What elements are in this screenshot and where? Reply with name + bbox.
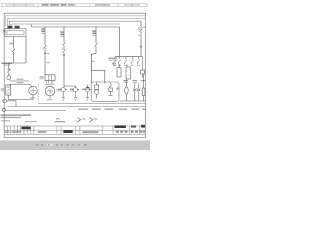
contact K3 — [44, 45, 47, 49]
pre-table small text left — [1, 120, 10, 121]
label left of RB1 — [40, 76, 44, 77]
pump motor M2 — [45, 86, 55, 96]
wire down into enclosure — [90, 54, 92, 85]
legend item GA2 — [90, 118, 98, 122]
transmitter loop outline — [5, 29, 26, 37]
sheet border frame — [4, 13, 145, 137]
wide columns — [56, 126, 58, 134]
bus L1 — [6, 16, 146, 26]
valve symbol left of loop — [3, 30, 6, 32]
contact K1 — [12, 49, 15, 52]
contact K5 — [62, 49, 66, 53]
notes text block — [1, 114, 31, 118]
bus L5 segment — [32, 24, 120, 27]
transmitter LT at bottom left — [3, 99, 8, 102]
label under M2 — [47, 99, 52, 100]
pump motor M1 — [29, 86, 38, 95]
contact K7 — [138, 28, 142, 32]
wire run y99.5 — [8, 99, 33, 101]
terminal block TB2 — [15, 26, 20, 29]
viewer grey bar — [0, 140, 150, 150]
branch wire to SV2 — [64, 86, 75, 87]
wire pair to pump A — [10, 80, 30, 82]
actuator A1 coil — [125, 79, 129, 101]
terminal block TB1 — [7, 26, 12, 29]
starter unit inside enclosure — [94, 82, 98, 98]
labels rung R3 — [60, 31, 63, 32]
solenoid SV1 — [60, 86, 67, 100]
connector glyphs under RB1 — [46, 81, 49, 84]
tick mid right drop — [138, 35, 140, 36]
wire down from LIT — [7, 95, 9, 100]
wire rung R4 — [95, 27, 97, 43]
label right of K7 — [143, 27, 146, 28]
labels rung R4 — [92, 30, 95, 31]
contact on right drop — [140, 21, 142, 28]
junction dot right drop — [140, 46, 142, 48]
dashed separator — [38, 84, 40, 103]
bus L2 — [7, 19, 145, 27]
stub S3 + contact — [125, 56, 127, 64]
label under M1 — [30, 97, 35, 98]
disconnect inside enclosure — [109, 82, 113, 95]
hook wire into pump A — [29, 84, 31, 87]
stub S2 + contact — [118, 56, 120, 64]
wire rung R1 lower — [8, 63, 10, 69]
label left of LIT — [1, 88, 5, 89]
label 4-20mA — [2, 63, 13, 65]
toolbar controls — [37, 144, 87, 147]
long rail lower1 — [38, 103, 146, 105]
valve V2 — [137, 83, 141, 101]
stub connectors to coils — [119, 64, 121, 67]
labels rung R2 top — [41, 28, 44, 29]
rung from L4 down right side — [119, 27, 121, 57]
tick at node — [92, 61, 95, 62]
wire rung R1 upper — [13, 37, 15, 49]
solenoid SV3 — [84, 85, 91, 101]
junction node — [44, 53, 46, 55]
long rail lower3 — [6, 110, 66, 112]
valve V1 — [133, 83, 137, 101]
narrow revision columns — [7, 126, 9, 134]
relay coil box RC2 — [126, 67, 131, 79]
stub labels row — [113, 65, 140, 66]
title block texts — [5, 125, 145, 133]
small box on S6 — [141, 70, 145, 74]
bus L4 — [11, 24, 120, 26]
stub S4 + contact — [131, 56, 133, 64]
bottom legend text row — [78, 109, 146, 110]
contact K6 — [95, 43, 98, 46]
stub S1 + contact — [114, 56, 116, 64]
cluster right-side wire — [25, 37, 27, 64]
label 2 inside enclosure — [116, 87, 118, 89]
relay box RB1 — [45, 75, 55, 81]
node bar y63 — [9, 62, 26, 64]
stub S6 — [141, 56, 143, 70]
legend item GA1 — [78, 118, 86, 122]
label 24VDC — [17, 79, 24, 80]
label mid rung R2 — [46, 62, 49, 63]
label left of enclosure — [86, 87, 89, 88]
junction node — [63, 54, 65, 56]
wire rung R3 — [63, 27, 65, 42]
heater H1 — [142, 74, 145, 101]
jog to left branch — [91, 53, 96, 70]
wire across y70.3 — [91, 70, 105, 83]
instrument tag cluster — [108, 58, 116, 59]
bottom-right labels row — [123, 80, 145, 83]
relay coil box RC1 — [117, 68, 121, 77]
bottom right rail — [120, 100, 146, 102]
contact K4 — [63, 42, 66, 45]
label PSL — [10, 43, 13, 45]
stub S5 + contact — [137, 56, 139, 64]
wire from LT — [6, 101, 16, 107]
scale mark — [55, 119, 66, 123]
top strip text — [5, 4, 140, 5]
instrument at rail3 start — [2, 108, 5, 111]
bus L3 — [9, 21, 141, 26]
title block table — [4, 126, 145, 134]
control enclosure — [91, 82, 119, 101]
solenoid SV2 — [72, 88, 79, 101]
top revision strip — [1, 4, 148, 7]
label right of M2 — [56, 89, 59, 90]
instrument bubble FI — [7, 76, 11, 80]
wire rung R2 — [44, 27, 46, 45]
distribution rail y56.4 — [115, 55, 142, 57]
long rail lower2 — [8, 106, 146, 108]
contact K2 — [7, 69, 10, 72]
instrument box LIT — [6, 85, 11, 95]
